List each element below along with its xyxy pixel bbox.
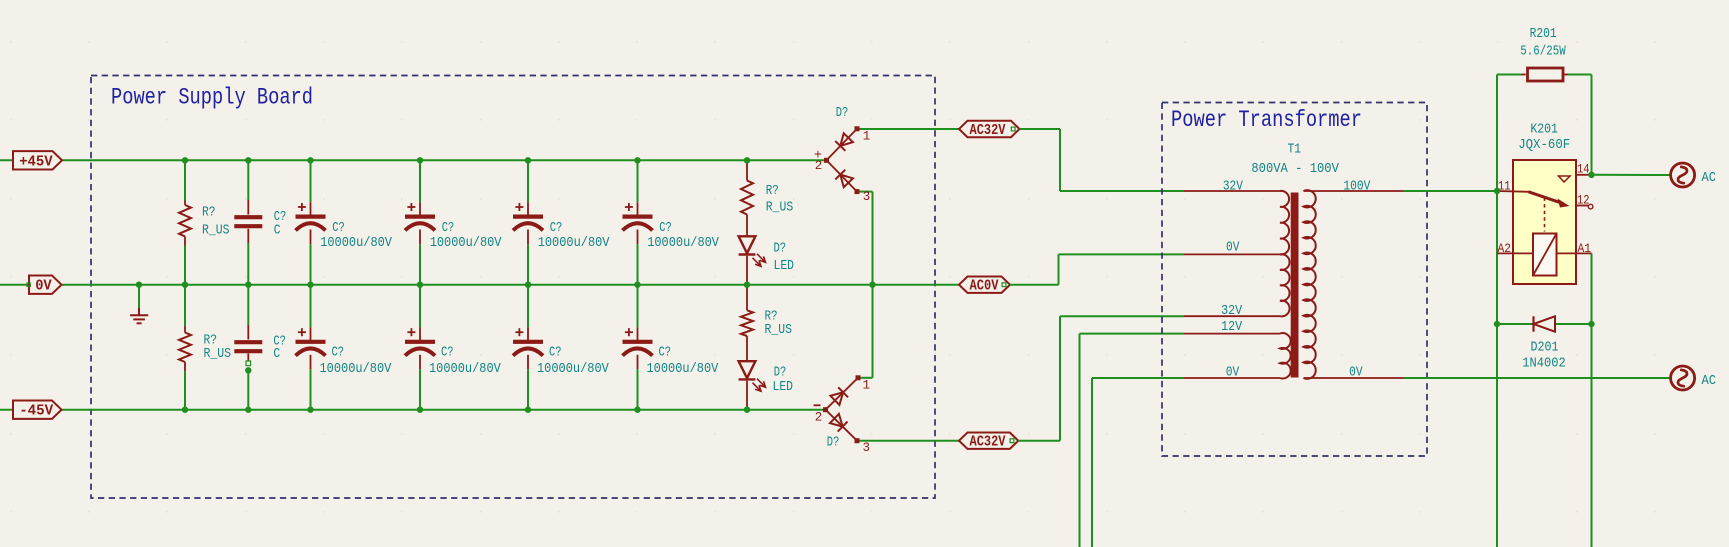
wire R1 top — [184, 160, 186, 284]
svg-text:C?: C? — [659, 345, 672, 360]
svg-text:10000u/80V: 10000u/80V — [320, 236, 393, 251]
Power Transformer sheet box — [1162, 103, 1427, 457]
svg-text:C?: C? — [549, 345, 562, 360]
capacitor C? 10000u/80V (top, x=528) — [513, 203, 543, 230]
wire Cpol bottom leads x=420 — [419, 285, 421, 410]
svg-text:800VA - 100V: 800VA - 100V — [1251, 162, 1339, 177]
labels top right — [766, 184, 794, 274]
Power Supply Board sheet box — [91, 76, 935, 499]
svg-text:D?: D? — [774, 366, 787, 381]
resistor R? R_US (top left) — [179, 205, 191, 236]
svg-text:C?: C? — [550, 221, 563, 236]
svg-text:Power Supply Board: Power Supply Board — [111, 85, 313, 111]
svg-text:R_US: R_US — [204, 347, 232, 362]
svg-text:JQX-60F: JQX-60F — [1518, 138, 1570, 153]
svg-text:10000u/80V: 10000u/80V — [537, 362, 610, 377]
wire right vertical lower — [1591, 253, 1593, 547]
label Cpol top x=310.5 — [320, 221, 393, 251]
capacitor C? 10000u/80V (top, x=420) — [405, 203, 435, 230]
svg-text:C?: C? — [442, 221, 455, 236]
junction D201 left — [1494, 321, 1500, 327]
label Cpol top x=528 — [538, 221, 611, 251]
global label AC32V (bottom) — [959, 433, 1018, 451]
svg-text:+: + — [814, 148, 822, 163]
svg-text:C?: C? — [332, 345, 345, 360]
svg-text:10000u/80V: 10000u/80V — [320, 362, 393, 377]
svg-text:R_US: R_US — [765, 323, 793, 338]
capacitor C? C (bottom) — [234, 342, 262, 351]
svg-text:+45V: +45V — [19, 152, 53, 170]
labels bottom bridge — [814, 379, 871, 456]
label K201 — [1518, 122, 1570, 153]
svg-text:A1: A1 — [1578, 241, 1592, 256]
svg-text:A2: A2 — [1498, 241, 1512, 256]
wire D4 pin1 stub — [858, 377, 873, 379]
wire AC0V to transformer — [1010, 254, 1184, 284]
label AC top — [1702, 171, 1717, 186]
wire C2 leads — [247, 285, 249, 410]
svg-text:C: C — [274, 223, 281, 238]
Power Transformer title — [1171, 107, 1362, 133]
svg-text:1: 1 — [863, 130, 871, 144]
wire Cpol bottom leads x=528 — [527, 285, 529, 410]
wire 100V to relay pin 11 — [1404, 190, 1498, 192]
svg-text:AC32V: AC32V — [970, 435, 1006, 451]
label T1 — [1288, 143, 1302, 158]
wire pin14 to AC — [1592, 174, 1672, 176]
svg-text:K201: K201 — [1530, 122, 1558, 137]
svg-text:1: 1 — [863, 379, 871, 393]
label Cpol bottom x=310.5 — [320, 345, 393, 377]
wire right vertical upper — [1591, 75, 1593, 175]
label Cpol top x=420 — [430, 221, 503, 251]
wire 0V rail — [0, 284, 959, 286]
resistor R201 — [1521, 68, 1569, 81]
wire RL bottom leads — [746, 285, 748, 410]
svg-text:1N4002: 1N4002 — [1522, 357, 1566, 372]
svg-text:10000u/80V: 10000u/80V — [430, 236, 503, 251]
svg-text:0V: 0V — [1226, 366, 1240, 381]
wire Cpol top leads x=528 — [527, 160, 529, 284]
label R201 — [1520, 27, 1566, 60]
svg-text:3: 3 — [863, 441, 871, 455]
wire D3 pin3 stub — [857, 191, 873, 193]
svg-text:AC0V: AC0V — [970, 279, 999, 295]
resistor R? R_US (bottom left) — [179, 333, 191, 363]
wire C1 leads — [247, 160, 249, 284]
LED D? (bottom) — [739, 361, 766, 391]
wire Cpol top leads x=420 — [419, 160, 421, 284]
global label +45V — [13, 151, 62, 170]
wire AC32V to transformer — [1020, 129, 1185, 191]
svg-text:5.6/25W: 5.6/25W — [1520, 44, 1566, 59]
wire 12V down — [1080, 334, 1185, 547]
svg-text:D?: D? — [836, 106, 849, 121]
svg-text:R_US: R_US — [202, 223, 230, 238]
label R1 — [202, 206, 230, 239]
LED D? (top) — [739, 236, 766, 266]
label AC bottom — [1702, 374, 1717, 389]
capacitor C? 10000u/80V (top, x=637.5) — [623, 203, 653, 230]
svg-text:AC: AC — [1702, 171, 1717, 186]
dangling end marker 0V — [27, 283, 30, 286]
junction below C2 — [245, 367, 251, 373]
connector AC (top) — [1671, 163, 1695, 187]
svg-text:AC: AC — [1702, 374, 1717, 389]
svg-text:LED: LED — [773, 380, 794, 395]
label C2 — [273, 334, 286, 361]
junction D201 right — [1588, 321, 1594, 327]
junction relay pin 14 — [1588, 172, 1594, 178]
wire -45V rail — [0, 409, 826, 411]
wire AC32V bottom to transformer — [1018, 316, 1184, 441]
svg-text:32V: 32V — [1221, 304, 1243, 319]
capacitor C? C (top) — [234, 217, 262, 226]
dangling marker below C2 — [246, 361, 251, 366]
label Cpol bottom x=637.5 — [647, 345, 720, 377]
wire Cpol bottom leads x=310.5 — [310, 285, 312, 410]
svg-text:10000u/80V: 10000u/80V — [647, 236, 720, 251]
dangling marker AC32V top — [1011, 127, 1015, 131]
global label AC32V (top) — [959, 121, 1020, 139]
svg-text:C?: C? — [332, 221, 345, 236]
relay K201 — [1497, 160, 1593, 284]
wire +45V rail — [0, 159, 827, 161]
junction dots on rails — [136, 157, 876, 413]
wire D3 pin1 to AC32V — [857, 128, 959, 130]
wire Cpol top leads x=637.5 — [637, 160, 639, 284]
relay pin labels — [1498, 162, 1592, 256]
capacitor C? 10000u/80V (bottom, x=310.5) — [296, 328, 326, 355]
capacitor C? 10000u/80V (top, x=310.5) — [296, 203, 326, 230]
dangling marker AC0V — [1002, 283, 1006, 287]
label D201 — [1522, 341, 1566, 372]
svg-text:0V: 0V — [1226, 241, 1240, 256]
transformer pin labels — [1221, 180, 1371, 381]
ground — [130, 286, 148, 324]
svg-text:Power Transformer: Power Transformer — [1171, 107, 1362, 133]
svg-text:LED: LED — [774, 259, 795, 274]
svg-text:D?: D? — [774, 242, 787, 257]
capacitor C? 10000u/80V (bottom, x=637.5) — [623, 328, 653, 355]
label R2 — [204, 333, 232, 361]
wire D4 pin3 to AC32V — [857, 440, 959, 442]
label Cpol bottom x=528 — [537, 345, 610, 377]
label C1 — [274, 210, 287, 239]
svg-text:C?: C? — [441, 345, 454, 360]
svg-text:C: C — [273, 347, 280, 362]
svg-text:10000u/80V: 10000u/80V — [647, 362, 720, 377]
svg-text:R?: R? — [766, 184, 779, 199]
capacitor C? 10000u/80V (bottom, x=420) — [405, 328, 435, 355]
resistor R? R_US (top right) — [741, 181, 753, 215]
capacitor C? 10000u/80V (bottom, x=528) — [513, 328, 543, 355]
labels top bridge — [814, 106, 870, 204]
wire R201 left — [1497, 74, 1522, 76]
wire Cpol bottom leads x=637.5 — [637, 285, 639, 410]
wire D201 — [1497, 323, 1592, 325]
svg-text:R201: R201 — [1530, 27, 1557, 42]
wire R2 leads — [184, 285, 186, 410]
svg-text:12V: 12V — [1221, 320, 1243, 335]
junction relay pin 11 — [1494, 188, 1500, 194]
svg-text:AC32V: AC32V — [970, 123, 1006, 139]
wire 0V down — [1092, 378, 1184, 547]
dual diode D? (top bridge) — [824, 126, 860, 194]
labels bottom right — [765, 310, 794, 396]
wire R201 right — [1568, 74, 1592, 76]
svg-text:0V: 0V — [35, 277, 52, 295]
dangling marker AC32V bottom — [1010, 439, 1014, 443]
wire Cpol top leads x=310.5 — [310, 160, 312, 284]
svg-text:10000u/80V: 10000u/80V — [429, 362, 502, 377]
Power Supply Board title — [111, 85, 313, 111]
svg-text:10000u/80V: 10000u/80V — [538, 236, 611, 251]
svg-text:100V: 100V — [1343, 180, 1371, 195]
svg-text:32V: 32V — [1223, 180, 1244, 195]
dual diode D? (bottom bridge) — [823, 375, 861, 443]
svg-text:0V: 0V — [1349, 366, 1363, 381]
svg-text:D201: D201 — [1531, 341, 1559, 356]
wire 0V to AC bottom — [1404, 377, 1671, 379]
global label 0V — [29, 276, 62, 295]
svg-text:C?: C? — [659, 221, 672, 236]
global label -45V — [13, 401, 62, 420]
label 800VA - 100V — [1251, 162, 1339, 177]
svg-text:14: 14 — [1577, 162, 1590, 177]
transformer T1 — [1184, 190, 1404, 379]
label Cpol bottom x=420 — [429, 345, 502, 377]
wire bridge vertical — [872, 192, 874, 378]
diode D201 — [1534, 316, 1556, 331]
wire RL top leads — [746, 160, 748, 284]
global label AC0V — [959, 277, 1010, 295]
svg-text:12: 12 — [1577, 192, 1590, 207]
svg-text:R_US: R_US — [766, 201, 794, 216]
connector AC (bottom) — [1671, 366, 1695, 390]
svg-text:3: 3 — [863, 190, 871, 204]
svg-text:D?: D? — [827, 435, 840, 450]
svg-text:-45V: -45V — [19, 402, 54, 420]
wire left vertical — [1496, 75, 1498, 547]
label Cpol top x=637.5 — [647, 221, 720, 251]
svg-text:T1: T1 — [1288, 143, 1302, 158]
svg-text:2: 2 — [815, 411, 823, 425]
resistor R? R_US (bottom right) — [741, 310, 753, 336]
svg-text:R?: R? — [202, 206, 216, 221]
